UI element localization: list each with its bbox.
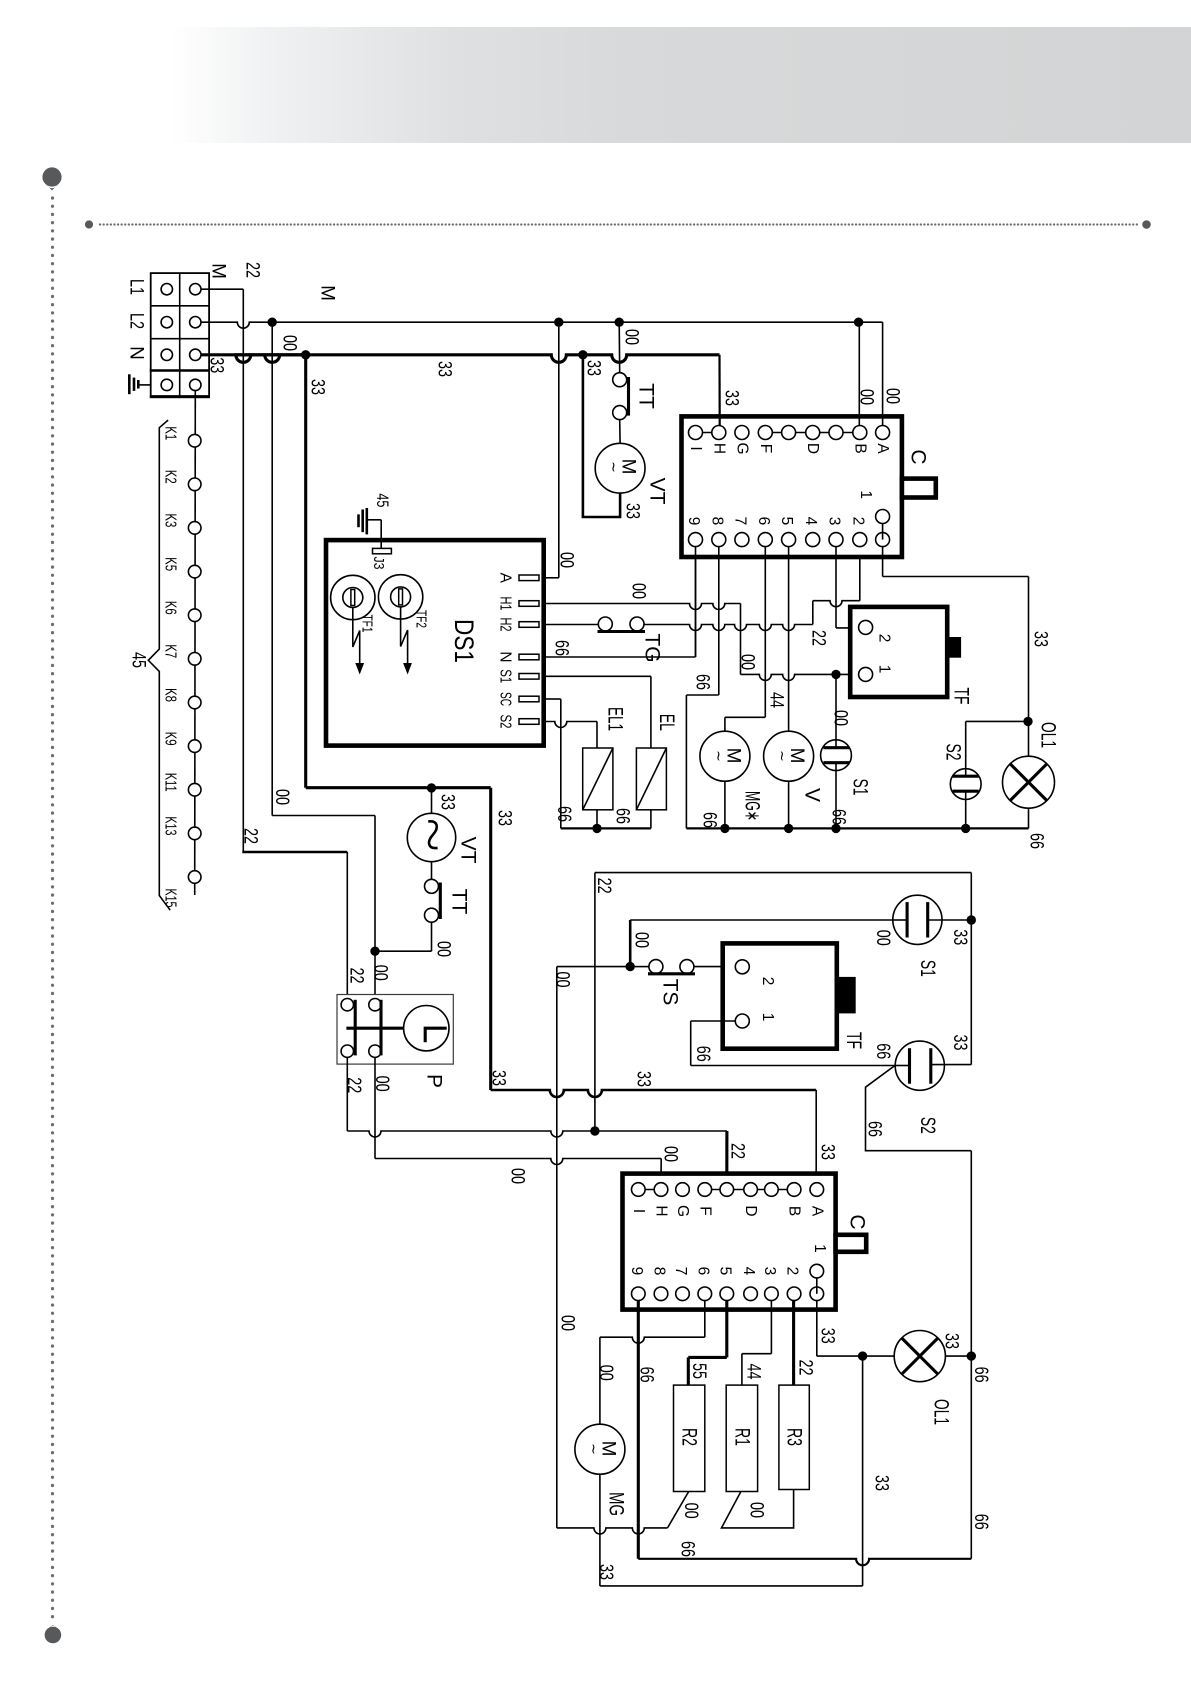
connector C lower pin G	[676, 1183, 690, 1197]
wire 66 bus EL segment	[561, 827, 651, 829]
connector C pin 8	[712, 533, 726, 547]
ground symbol at terminal block	[128, 374, 131, 394]
svg-text:33: 33	[434, 361, 455, 377]
connector C pin 4	[806, 533, 820, 547]
svg-text:3: 3	[826, 517, 843, 526]
svg-text:G: G	[733, 442, 750, 454]
svg-text:VT: VT	[646, 478, 669, 505]
wire 22 from L1 to P switch	[201, 288, 243, 290]
connector C lower pin top	[765, 1183, 779, 1197]
transformer TF (upper)	[850, 607, 947, 697]
svg-text:00: 00	[856, 389, 877, 405]
P actuator	[404, 1005, 449, 1050]
svg-text:S2: S2	[497, 715, 514, 729]
svg-text:R2: R2	[678, 1428, 701, 1446]
svg-text:K5: K5	[162, 557, 179, 571]
DS1 pin S2	[519, 719, 539, 725]
svg-text:1: 1	[876, 665, 893, 674]
svg-text:22: 22	[242, 262, 263, 278]
junction dot 33 at VT (mid)	[427, 783, 436, 792]
svg-text:S1: S1	[497, 669, 514, 683]
svg-text:00: 00	[557, 1315, 578, 1331]
svg-text:66: 66	[970, 1514, 991, 1530]
svg-text:L2: L2	[126, 313, 147, 329]
svg-text:F: F	[696, 1206, 713, 1215]
indicator lamp TF1	[331, 575, 375, 619]
junction dot 00 at TT riser	[615, 318, 624, 327]
wire pin 1 to OL1	[882, 547, 884, 577]
svg-text:8: 8	[708, 517, 725, 526]
connector C pin 1 bottom	[876, 533, 890, 547]
connector C lower pin B	[787, 1183, 801, 1197]
capacitor S1 (lower)	[893, 895, 942, 944]
svg-text:A: A	[808, 1206, 825, 1217]
connector C lower pin 1 bottom	[810, 1287, 824, 1301]
svg-text:K15: K15	[162, 889, 179, 908]
terminal block supply connector	[151, 273, 209, 397]
wire 22 right edge to S1	[970, 873, 972, 1065]
svg-text:TF: TF	[950, 688, 973, 705]
svg-text:TF1: TF1	[359, 615, 375, 633]
wire TF lower pin 1 to S2	[691, 1020, 736, 1022]
connector C pin 9	[689, 533, 703, 547]
horizontal dotted separator line	[85, 220, 93, 228]
wire 00 from P to C pin H	[374, 1057, 376, 1158]
svg-text:33: 33	[205, 357, 226, 373]
junction dot 33 at N branch	[301, 350, 310, 359]
terminal K15	[188, 871, 201, 884]
wire VT mid to TT	[431, 862, 433, 880]
wire DS1-S1 to EL	[546, 675, 651, 677]
svg-text:55: 55	[688, 1363, 709, 1379]
svg-text:00: 00	[746, 1502, 767, 1518]
connector C lower pin 6	[698, 1287, 712, 1301]
wire 66 bottom run	[638, 1559, 971, 1566]
svg-text:B: B	[851, 443, 868, 453]
flash arrow TF2	[401, 607, 408, 664]
svg-text:9: 9	[685, 517, 702, 526]
svg-text:33: 33	[949, 929, 970, 945]
svg-text:1: 1	[811, 1244, 828, 1253]
wire TT mid to 00 junction	[431, 922, 433, 951]
svg-text:K8: K8	[162, 688, 179, 702]
junction dot MG* on 66 bus	[720, 824, 729, 833]
svg-text:4: 4	[802, 517, 819, 526]
resistor R2	[674, 1385, 705, 1491]
motor VT (top fan)	[595, 443, 645, 493]
svg-text:7: 7	[672, 1267, 689, 1276]
svg-text:00: 00	[628, 583, 649, 599]
svg-text:33: 33	[437, 794, 458, 810]
wire 66 pin 9 lower thick	[637, 1301, 640, 1559]
connector C lower pin H	[654, 1183, 668, 1197]
wire TS to TF pin 2	[694, 966, 735, 968]
connector C pin 6	[758, 533, 772, 547]
control unit DS1 box	[326, 540, 544, 746]
bracket line for K terminals to 45	[148, 420, 170, 910]
svg-text:∼: ∼	[586, 1443, 602, 1455]
connector C pin 2	[853, 533, 867, 547]
svg-text:00: 00	[882, 388, 903, 404]
svg-text:C: C	[907, 449, 930, 464]
svg-text:S2: S2	[916, 1117, 939, 1134]
wire 00 to pin A	[882, 322, 884, 425]
connector C lower pin F	[698, 1183, 712, 1197]
wire pin 3 to TF pin 2	[835, 547, 837, 628]
svg-text:OL1: OL1	[930, 1399, 953, 1425]
flash arrow TF1	[353, 608, 360, 665]
svg-text:N: N	[126, 346, 147, 360]
connector C lower pin 9	[632, 1287, 646, 1301]
connector C lower pin 2	[787, 1287, 801, 1301]
pressure switch P box	[337, 995, 453, 1065]
connector C lower pin A	[810, 1183, 824, 1197]
wire 22 to lower C pin	[595, 1130, 727, 1132]
connector C pin A	[876, 426, 890, 440]
P contacts	[341, 999, 353, 1011]
wire 66 bus (upper)	[686, 827, 1028, 829]
wire 33 line to thick riser	[432, 786, 491, 789]
switch TG	[598, 617, 612, 631]
svg-text:K1: K1	[162, 426, 179, 440]
svg-text:00: 00	[872, 930, 893, 946]
connector C pin 1	[882, 517, 884, 540]
capacitor S2 (lower)	[895, 1041, 944, 1090]
wire TT riser	[618, 322, 621, 373]
svg-text:66: 66	[970, 1367, 991, 1383]
transformer TF (lower)	[723, 943, 837, 1048]
svg-text:33: 33	[633, 1071, 654, 1087]
svg-text:22: 22	[808, 630, 829, 646]
svg-text:TG: TG	[641, 633, 664, 662]
wire TT to VT motor	[619, 420, 621, 444]
lamp OL1 (upper)	[1028, 721, 1030, 756]
svg-text:D: D	[804, 443, 821, 454]
svg-text:66: 66	[551, 640, 572, 656]
terminal K5	[188, 565, 201, 578]
svg-text:OL1: OL1	[1037, 722, 1060, 748]
junction dot 00 at P riser	[370, 947, 379, 956]
svg-text:I: I	[630, 1209, 647, 1213]
spark generator VT (mid)	[407, 813, 455, 861]
svg-text:5: 5	[778, 517, 795, 526]
svg-text:R1: R1	[731, 1428, 754, 1446]
svg-text:K11: K11	[162, 773, 179, 792]
svg-text:K13: K13	[162, 816, 179, 835]
svg-text:00: 00	[830, 710, 851, 726]
svg-text:1: 1	[857, 490, 874, 499]
svg-text:H: H	[653, 1205, 670, 1216]
svg-text:9: 9	[628, 1267, 645, 1276]
wire EL bottom	[650, 810, 652, 829]
connector C pin F	[758, 426, 772, 440]
junction dot 22 lower	[590, 1126, 599, 1135]
svg-text:TT: TT	[635, 383, 658, 409]
DS1 pin SC	[519, 696, 539, 702]
connector C pin B	[853, 426, 867, 440]
svg-text:22: 22	[795, 1360, 816, 1376]
wire 33 branch down-left (thick loop)	[304, 355, 307, 788]
svg-text:33: 33	[949, 1035, 970, 1051]
wire 33 pin 1 to OL1	[816, 1301, 818, 1357]
svg-text:00: 00	[507, 1168, 528, 1184]
wire H1 from DS1 to TF and S1	[546, 604, 741, 610]
DS1 pin H2	[519, 622, 539, 628]
connector C pin top	[829, 426, 843, 440]
svg-text:J3: J3	[370, 557, 386, 570]
junction dot OL1 left	[858, 1351, 867, 1360]
svg-text:∼: ∼	[775, 750, 791, 762]
svg-text:00: 00	[271, 789, 292, 805]
svg-text:G: G	[674, 1205, 691, 1217]
resistor R1	[726, 1385, 757, 1491]
wire 00 branch down to P switch	[271, 322, 273, 815]
terminal K7	[188, 653, 201, 666]
bottom-left gray pin dot	[45, 1627, 62, 1644]
DS1 pin N	[519, 654, 539, 660]
wire S2 bypass down	[866, 1066, 972, 1151]
svg-text:EL: EL	[655, 714, 678, 731]
svg-text:00: 00	[370, 965, 391, 981]
svg-text:TF2: TF2	[412, 610, 428, 628]
wire 22 pin 2 to R3	[792, 1301, 795, 1386]
wire ground to K chain	[194, 391, 197, 895]
svg-text:33: 33	[1030, 631, 1051, 647]
wire TG to C pin 2	[644, 625, 813, 631]
svg-text:33: 33	[488, 1070, 509, 1086]
svg-text:C: C	[846, 1214, 869, 1229]
motor MG*	[700, 731, 750, 781]
connector C pin 7	[735, 533, 749, 547]
svg-text:66: 66	[612, 808, 633, 824]
svg-text:TF: TF	[842, 1032, 865, 1049]
connector C lower pin 4	[744, 1287, 758, 1301]
connector C lower pin 8	[654, 1287, 668, 1301]
svg-text:66: 66	[699, 812, 720, 828]
svg-text:22: 22	[593, 878, 614, 894]
svg-text:66: 66	[692, 674, 713, 690]
svg-text:F: F	[757, 444, 774, 453]
svg-text:K3: K3	[162, 513, 179, 527]
DS1 pin H1	[519, 601, 539, 607]
svg-text:4: 4	[740, 1267, 757, 1276]
svg-text:H: H	[710, 443, 727, 454]
svg-text:33: 33	[307, 379, 328, 395]
svg-text:33: 33	[622, 503, 643, 519]
wire DS1-S2 to EL1	[546, 722, 597, 728]
wire VT return to 33 line	[583, 355, 620, 517]
junction dot 33 at VT return	[578, 350, 587, 359]
svg-text:D: D	[742, 1205, 759, 1216]
capacitor S1 (upper)	[821, 740, 852, 771]
connector C pin G	[735, 426, 749, 440]
svg-text:M: M	[317, 285, 338, 301]
DS1 pin A	[519, 575, 539, 581]
svg-text:00: 00	[595, 1365, 616, 1381]
svg-text:22: 22	[343, 1077, 364, 1093]
junction dot H1 at TF pin 1	[831, 670, 840, 679]
connector C lower row link F-B	[705, 1189, 794, 1191]
svg-text:MG: MG	[605, 1492, 628, 1516]
svg-text:00: 00	[737, 654, 758, 670]
left vertical dotted line	[51, 198, 54, 1618]
svg-text:7: 7	[731, 517, 748, 526]
svg-text:22: 22	[346, 968, 367, 984]
junction dot TS	[626, 962, 635, 971]
svg-text:P: P	[423, 1074, 446, 1088]
wire MG bottom to 33 run	[599, 1474, 601, 1586]
wire EL1 bottom	[596, 810, 598, 829]
svg-text:S1: S1	[849, 779, 872, 796]
motor MG	[575, 1424, 625, 1474]
svg-text:S1: S1	[916, 960, 939, 977]
connector C (lower)	[623, 1174, 836, 1310]
junction dot S1 on 66 bus	[831, 824, 840, 833]
svg-text:1: 1	[759, 1013, 776, 1022]
connector C lower pin top	[720, 1183, 734, 1197]
svg-text:22: 22	[727, 1143, 748, 1159]
connector C lower pin 3	[765, 1287, 779, 1301]
capacitor S2 (upper)	[950, 769, 981, 800]
wire DS1-A to 00 line	[546, 577, 559, 579]
svg-text:66: 66	[677, 1541, 698, 1557]
svg-text:00: 00	[433, 941, 454, 957]
resistor R3	[779, 1385, 809, 1489]
svg-text:66: 66	[872, 1043, 893, 1059]
connector C (upper)	[682, 416, 902, 557]
lamp OL1 (lower)	[863, 1355, 895, 1357]
wire H2 from DS1 to TG	[546, 624, 599, 626]
wire DS1-N to C pin 9	[546, 656, 696, 658]
svg-text:I: I	[687, 446, 704, 450]
svg-text:00: 00	[660, 1146, 681, 1162]
svg-text:45: 45	[128, 652, 149, 668]
wire 00 long vertical	[556, 967, 558, 1528]
wire pin 6 to MG motor	[764, 547, 766, 718]
wire 33 thick riser down	[489, 788, 492, 1090]
svg-text:H2: H2	[497, 618, 514, 632]
svg-text:2: 2	[759, 977, 776, 986]
svg-text:66: 66	[1026, 833, 1047, 849]
svg-text:33: 33	[817, 1144, 838, 1160]
svg-text:MG∗: MG∗	[741, 791, 764, 821]
wire VT mid top lead	[431, 788, 433, 815]
svg-text:TT: TT	[448, 889, 471, 915]
connector C pin H	[712, 426, 726, 440]
wire MG* bottom	[724, 781, 726, 828]
svg-text:33: 33	[941, 1333, 962, 1349]
connector C pin 5	[782, 533, 796, 547]
junction dot V on 66 bus	[784, 824, 793, 833]
motor V	[764, 731, 814, 781]
wire TS riser to S1	[629, 920, 632, 967]
terminal K6	[188, 609, 201, 622]
terminal K13	[188, 827, 201, 840]
wire 55 pin 5 to R2	[725, 1301, 728, 1358]
connector C upper row link I-H	[696, 432, 719, 434]
svg-text:5: 5	[716, 1267, 733, 1276]
svg-text:00: 00	[552, 972, 573, 988]
junction dot S2 on 66 bus	[961, 824, 970, 833]
svg-text:44: 44	[766, 692, 787, 708]
wire MG top from pin 6	[704, 1301, 706, 1338]
indicator lamp TF2	[378, 575, 422, 619]
junction dot S1 right	[967, 915, 976, 924]
wire R1 R3 bottoms	[722, 1490, 794, 1528]
push switch TT (mid)	[425, 879, 439, 893]
junction dot EL1 bottom	[592, 824, 601, 833]
wire 33 from N (thick mains line)	[201, 353, 306, 356]
svg-text:00: 00	[631, 932, 652, 948]
svg-text:45: 45	[373, 493, 392, 507]
svg-text:44: 44	[743, 1364, 764, 1380]
wire DS1-SC to EL bottoms	[546, 698, 561, 700]
svg-text:H1: H1	[497, 597, 514, 611]
svg-text:2: 2	[849, 517, 866, 526]
svg-text:00: 00	[556, 552, 577, 568]
terminal K2	[188, 478, 201, 491]
svg-text:L1: L1	[126, 279, 147, 295]
svg-text:N: N	[497, 651, 514, 662]
connector C pin 3	[829, 533, 843, 547]
wire pin 9 to DS1-N riser	[695, 547, 697, 657]
svg-text:DS1: DS1	[449, 619, 479, 663]
wire 22 lower rectangle top	[595, 872, 971, 874]
DS1 pin S1	[519, 674, 539, 680]
connector C lower pin I	[632, 1183, 646, 1197]
svg-text:66: 66	[692, 1046, 713, 1062]
svg-text:3: 3	[761, 1267, 778, 1276]
connector C lower pin 1	[816, 1271, 818, 1294]
wire 00 from L2 (top mains line)	[201, 322, 883, 328]
svg-text:2: 2	[876, 634, 893, 643]
svg-text:EL1: EL1	[604, 707, 627, 731]
wire 00 bottom to R2	[557, 1528, 668, 1534]
connector C lower pin 5	[720, 1287, 734, 1301]
terminal K1	[188, 434, 201, 447]
svg-text:00: 00	[680, 1503, 701, 1519]
connector C key tab (upper)	[902, 479, 936, 498]
top-left gray pin dot	[42, 167, 61, 186]
svg-text:∼: ∼	[711, 750, 727, 762]
jumper J3	[373, 548, 392, 553]
svg-text:R3: R3	[783, 1428, 806, 1446]
svg-text:∼: ∼	[606, 461, 622, 473]
svg-text:K7: K7	[162, 644, 179, 658]
svg-text:M: M	[208, 263, 229, 279]
svg-text:A: A	[497, 573, 514, 584]
wire 33 drop to pin H	[718, 355, 720, 426]
connector C upper row link F-B	[765, 432, 860, 434]
connector C key tab (lower)	[836, 1235, 867, 1252]
wire 33 bottom run to C pin A	[491, 1090, 817, 1097]
junction dot S2 at OL1 riser	[1023, 717, 1032, 726]
svg-text:S2: S2	[942, 744, 965, 761]
svg-text:33: 33	[494, 810, 515, 826]
connector C lower row link I-H	[638, 1189, 661, 1191]
svg-text:B: B	[786, 1206, 803, 1216]
wire right vertical lower	[970, 1151, 972, 1559]
svg-text:8: 8	[651, 1267, 668, 1276]
connector C pin top	[782, 426, 796, 440]
connector C lower pin D	[744, 1183, 758, 1197]
terminal K8	[188, 696, 201, 709]
junction dot 00 at DS1-A riser	[554, 318, 563, 327]
resistor EL1	[583, 748, 613, 810]
svg-text:K6: K6	[162, 601, 179, 615]
svg-text:K9: K9	[162, 732, 179, 746]
svg-text:33: 33	[583, 360, 604, 376]
